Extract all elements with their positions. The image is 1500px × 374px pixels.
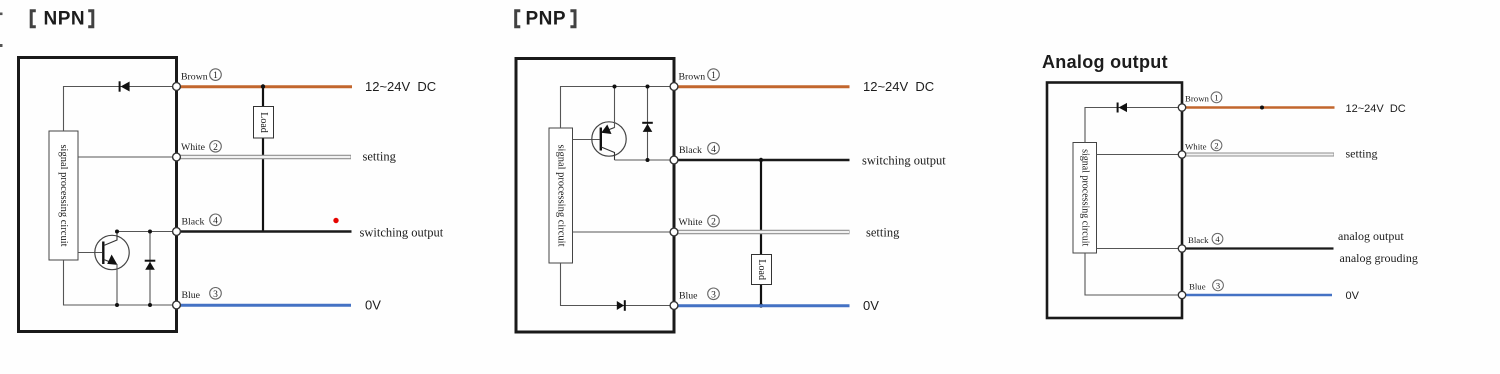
diode D2 triangle <box>145 262 155 270</box>
svg-text:12~24V DC: 12~24V DC <box>863 79 934 94</box>
junction dot diode-blue <box>148 303 152 307</box>
pin number 1 circled <box>1211 92 1222 103</box>
svg-text:4: 4 <box>711 145 716 155</box>
wire internal black <box>1097 248 1183 250</box>
wire internal blue bottom <box>561 263 675 306</box>
load wire vertical <box>262 87 264 232</box>
svg-text:signal processing circuit: signal processing circuit <box>1079 149 1090 246</box>
transistor Q1 emitter arrow <box>107 255 117 265</box>
svg-text:Load: Load <box>756 259 767 280</box>
transistor Q1 emitter diagonal <box>104 260 114 264</box>
svg-text:setting: setting <box>1346 147 1378 161</box>
terminal pin 4 black <box>173 228 181 236</box>
wire internal brown top <box>1085 108 1182 143</box>
wire brown external 12-24V <box>177 85 353 88</box>
wire brown external 12-24V <box>1182 106 1335 108</box>
svg-text:Brown: Brown <box>1185 94 1210 104</box>
svg-text:12~24V DC: 12~24V DC <box>1346 103 1406 115</box>
wire internal brown top <box>64 87 177 132</box>
transistor Q2 emitter arrow <box>601 125 611 135</box>
terminal pin 2 white <box>173 153 181 161</box>
transistor Q1 base bar <box>102 242 104 265</box>
junction dot diode-black <box>148 230 152 234</box>
page-edge tick mark 2 <box>0 44 3 47</box>
wire internal base <box>573 139 600 141</box>
terminal pin 4 black <box>670 156 678 164</box>
wire internal blue bottom <box>64 260 177 305</box>
wire internal white <box>78 156 177 158</box>
svg-text:0V: 0V <box>863 298 879 313</box>
wire internal black <box>117 231 177 233</box>
svg-text:White: White <box>679 217 704 228</box>
sensor outline box U2 <box>516 59 674 333</box>
page-edge tick mark 1 <box>0 13 3 16</box>
svg-text:Black: Black <box>1188 235 1209 245</box>
pin number 2 circled <box>210 141 222 153</box>
wire emitter down <box>116 264 118 305</box>
svg-text:setting: setting <box>363 150 397 164</box>
wire internal base <box>78 252 102 254</box>
svg-text:Black: Black <box>679 145 702 156</box>
svg-text:PNP: PNP <box>526 9 567 30</box>
transistor Q2 base bar <box>600 128 602 151</box>
diode D3 wire <box>647 87 649 161</box>
pin number 1 circled <box>708 69 720 81</box>
sensor outline box U1 <box>19 58 177 332</box>
svg-text:3: 3 <box>1216 280 1220 290</box>
signal processing circuit box <box>49 131 78 260</box>
terminal pin 4 black <box>1178 245 1185 252</box>
wire blue external 0V <box>1182 294 1332 296</box>
svg-text:Brown: Brown <box>679 72 706 83</box>
junction dot diode-brown <box>646 85 650 89</box>
transistor Q2 circle <box>592 122 626 156</box>
wire blue external 0V <box>674 304 850 307</box>
diode D4 cathode bar <box>624 300 626 311</box>
svg-text:Brown: Brown <box>181 72 208 83</box>
svg-text:2: 2 <box>213 143 218 153</box>
svg-text:switching output: switching output <box>862 154 946 168</box>
svg-text:analog output: analog output <box>1338 229 1404 243</box>
junction dot load-black <box>759 158 763 162</box>
pin number 3 circled <box>1213 280 1224 291</box>
pin number 4 circled <box>708 143 720 155</box>
diode D4 triangle <box>617 301 624 310</box>
wire internal blue bottom <box>1085 253 1182 295</box>
title NPN left bracket <box>31 11 36 27</box>
svg-text:Blue: Blue <box>679 291 698 302</box>
red indicator dot <box>333 218 338 223</box>
terminal pin 3 blue <box>670 302 678 310</box>
pin number 3 circled <box>210 288 222 300</box>
svg-text:2: 2 <box>1214 140 1218 150</box>
svg-text:3: 3 <box>213 290 218 300</box>
wire blue external 0V <box>177 304 352 307</box>
signal processing circuit box <box>549 128 573 263</box>
terminal pin 1 brown <box>1178 104 1185 111</box>
wire internal brown top <box>561 87 675 129</box>
junction dot diode-black <box>646 158 650 162</box>
wire internal black <box>615 159 675 161</box>
junction dot on brown wire <box>1260 106 1264 110</box>
svg-text:3: 3 <box>711 290 716 300</box>
pin number 4 circled <box>210 214 222 226</box>
svg-text:Blue: Blue <box>182 290 201 301</box>
terminal pin 3 blue <box>173 301 181 309</box>
wire black external switching output <box>674 159 850 162</box>
svg-text:Black: Black <box>182 217 205 228</box>
diode D5 cathode bar <box>1117 103 1119 113</box>
svg-text:White: White <box>1185 142 1207 152</box>
junction dot emitter-blue <box>115 303 119 307</box>
svg-text:0V: 0V <box>1346 290 1360 302</box>
title PNP left bracket <box>516 11 521 27</box>
title PNP right bracket <box>570 11 575 27</box>
pin number 2 circled <box>1211 140 1222 151</box>
diode D1 cathode bar <box>119 81 121 91</box>
svg-text:White: White <box>181 142 206 153</box>
diode D1 triangle <box>121 82 130 92</box>
wire white external setting <box>177 155 352 159</box>
diode D3 triangle <box>643 124 653 132</box>
transistor Q1 circle <box>95 235 129 269</box>
wire white external setting <box>674 230 850 234</box>
pin number 2 circled <box>708 215 720 227</box>
svg-text:2: 2 <box>711 218 716 228</box>
wire emitter up <box>614 87 616 129</box>
svg-text:signal processing circuit: signal processing circuit <box>555 144 566 246</box>
wire internal white <box>573 231 675 233</box>
svg-text:4: 4 <box>213 216 218 226</box>
svg-text:12~24V DC: 12~24V DC <box>365 79 436 94</box>
terminal pin 2 white <box>670 228 678 236</box>
transistor Q2 emitter diagonal <box>604 128 615 132</box>
junction dot collector-black <box>115 230 119 234</box>
wire brown external 12-24V <box>674 85 850 88</box>
svg-text:Blue: Blue <box>1189 282 1206 292</box>
pin number 3 circled <box>708 288 720 300</box>
terminal pin 2 white <box>1178 151 1185 158</box>
svg-text:Load: Load <box>258 112 269 133</box>
diode D2 cathode bar <box>145 260 156 262</box>
junction dot emitter-brown <box>613 85 617 89</box>
svg-text:switching output: switching output <box>360 226 444 240</box>
svg-text:1: 1 <box>1214 92 1218 102</box>
title NPN right bracket <box>88 11 93 27</box>
terminal pin 3 blue <box>1178 291 1185 298</box>
diode D3 cathode bar <box>642 122 653 124</box>
svg-text:1: 1 <box>213 71 218 81</box>
terminal pin 1 brown <box>670 83 678 91</box>
svg-text:4: 4 <box>1215 234 1220 244</box>
signal processing circuit box <box>1073 143 1097 254</box>
load wire vertical <box>760 160 762 306</box>
svg-text:0V: 0V <box>365 298 381 313</box>
svg-text:analog grouding: analog grouding <box>1340 251 1418 265</box>
transistor Q2 collector diagonal <box>601 147 614 160</box>
wire black external switching output <box>177 230 352 233</box>
svg-text:signal processing circuit: signal processing circuit <box>58 144 69 246</box>
load box <box>752 255 772 285</box>
junction dot load-brown <box>261 84 265 88</box>
svg-text:setting: setting <box>866 226 900 240</box>
transistor Q1 collector diagonal <box>104 232 117 246</box>
wire black external analog output <box>1182 247 1334 249</box>
terminal pin 1 brown <box>173 83 181 91</box>
load box <box>254 107 274 139</box>
diode D2 wire <box>149 232 151 306</box>
wire internal white <box>1097 154 1183 156</box>
pin number 4 circled <box>1212 233 1223 244</box>
pin number 1 circled <box>210 69 222 81</box>
sensor outline box U3 <box>1047 83 1182 319</box>
svg-text:NPN: NPN <box>44 9 86 30</box>
svg-text:Analog output: Analog output <box>1042 52 1168 72</box>
svg-text:1: 1 <box>711 71 716 81</box>
wire white external setting <box>1182 153 1334 157</box>
diode D5 triangle <box>1119 103 1127 112</box>
junction dot load-blue <box>759 303 763 307</box>
